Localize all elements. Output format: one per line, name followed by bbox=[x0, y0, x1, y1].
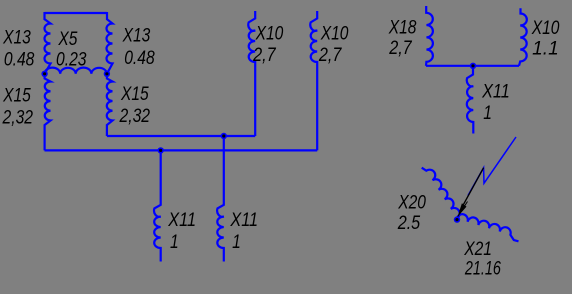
coil X11 left bbox=[154, 150, 161, 261]
svg-text:X15: X15 bbox=[2, 86, 31, 107]
bus 1 bbox=[107, 135, 255, 137]
junction bus1 dot bbox=[221, 133, 227, 139]
svg-text:X10: X10 bbox=[531, 18, 560, 39]
svg-text:X10: X10 bbox=[255, 23, 284, 44]
svg-text:2.5: 2.5 bbox=[397, 213, 421, 234]
svg-text:0.48: 0.48 bbox=[4, 50, 35, 71]
svg-text:X13: X13 bbox=[122, 26, 151, 47]
short-circuit arrowhead bbox=[458, 203, 467, 217]
svg-text:X15: X15 bbox=[120, 84, 149, 105]
coil X15 left bbox=[45, 74, 51, 151]
svg-text:1: 1 bbox=[170, 232, 179, 253]
svg-text:X21: X21 bbox=[463, 239, 492, 260]
junction fault node dot bbox=[454, 216, 460, 222]
coil X18 bbox=[426, 6, 433, 66]
svg-text:X5: X5 bbox=[58, 29, 78, 50]
svg-text:2,7: 2,7 bbox=[318, 45, 343, 66]
coil X11 middle bbox=[467, 66, 474, 134]
coil X10 first bbox=[248, 11, 255, 136]
svg-text:X10: X10 bbox=[320, 23, 349, 44]
bus 2 bbox=[45, 149, 318, 151]
coil X13 right bbox=[107, 12, 113, 74]
junction X5 left dot bbox=[41, 71, 47, 77]
svg-text:21.16: 21.16 bbox=[464, 259, 501, 280]
svg-text:1: 1 bbox=[232, 232, 241, 253]
svg-text:X11: X11 bbox=[167, 210, 196, 231]
svg-text:X11: X11 bbox=[481, 82, 510, 103]
svg-text:1: 1 bbox=[483, 103, 492, 124]
svg-text:1.1: 1.1 bbox=[532, 39, 559, 60]
svg-text:X20: X20 bbox=[397, 193, 426, 214]
svg-text:X11: X11 bbox=[230, 210, 259, 231]
svg-text:X18: X18 bbox=[388, 18, 417, 39]
junction bus3 dot bbox=[470, 63, 476, 69]
wire top box bbox=[45, 12, 108, 14]
svg-text:X13: X13 bbox=[2, 28, 31, 49]
coil X15 right bbox=[107, 74, 113, 136]
junction X5 right dot bbox=[104, 71, 110, 77]
svg-text:0.48: 0.48 bbox=[124, 48, 155, 69]
coil X20 bbox=[422, 168, 460, 219]
svg-text:2,32: 2,32 bbox=[2, 108, 34, 129]
svg-text:2,32: 2,32 bbox=[119, 106, 151, 127]
coil X11 right bbox=[217, 136, 224, 262]
wire bus 3 bbox=[426, 65, 519, 67]
junction bus2 dot bbox=[158, 147, 164, 153]
coil X21 bbox=[457, 214, 519, 241]
coil X13 left bbox=[45, 12, 51, 74]
lightning bolt blue bbox=[468, 137, 516, 196]
coil X5 bbox=[45, 68, 107, 74]
svg-text:2,7: 2,7 bbox=[388, 38, 413, 59]
svg-text:2,7: 2,7 bbox=[252, 45, 277, 66]
coil X10 third bbox=[519, 8, 527, 66]
lightning bolt black shaft bbox=[460, 168, 484, 212]
svg-text:0.23: 0.23 bbox=[56, 50, 87, 71]
coil X10 second bbox=[310, 11, 317, 150]
